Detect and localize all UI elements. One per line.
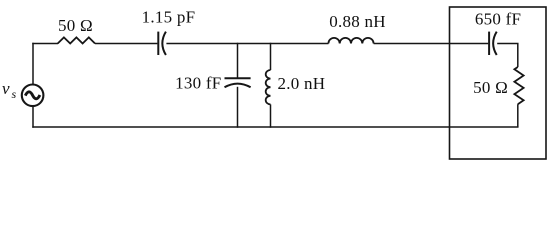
wire shunt capacitor top lead	[237, 43, 239, 78]
svg-text:1.15 pF: 1.15 pF	[142, 8, 196, 27]
wire top rail segment 5 with corner down	[497, 44, 518, 68]
svg-text:s: s	[12, 87, 17, 101]
capacitor C2 130 fF shunt	[225, 78, 251, 87]
svg-text:v: v	[2, 79, 10, 98]
capacitor C1 1.15 pF	[158, 32, 166, 55]
label vs	[2, 79, 17, 101]
svg-text:650 fF: 650 fF	[475, 10, 521, 29]
capacitor C3 650 fF	[489, 32, 497, 55]
resistor R2 50 ohm load	[514, 67, 523, 104]
svg-text:50 Ω: 50 Ω	[58, 16, 93, 35]
wire left rail upper	[32, 43, 34, 85]
wire shunt inductor bottom lead	[270, 104, 272, 127]
wire bottom rail	[32, 126, 518, 128]
svg-text:50 Ω: 50 Ω	[473, 78, 508, 97]
wire top rail segment 1	[32, 43, 58, 45]
load network box	[450, 7, 547, 159]
wire top rail segment 4	[374, 43, 489, 45]
voltage source U vs	[22, 85, 44, 107]
wire top rail segment 3	[166, 43, 328, 45]
inductor L2 0.88 nH series	[328, 38, 373, 44]
svg-text:0.88 nH: 0.88 nH	[329, 12, 386, 31]
wire load resistor bottom lead with corner	[517, 104, 519, 127]
svg-text:130 fF: 130 fF	[175, 74, 221, 93]
wire left rail lower	[32, 106, 34, 128]
resistor R1 50 ohm series	[58, 37, 95, 43]
wire top rail segment 2	[95, 43, 157, 45]
wire shunt inductor top lead	[270, 43, 272, 70]
wire shunt capacitor bottom lead	[237, 87, 239, 128]
inductor L1 2.0 nH shunt	[266, 70, 271, 104]
svg-text:2.0 nH: 2.0 nH	[278, 74, 326, 93]
